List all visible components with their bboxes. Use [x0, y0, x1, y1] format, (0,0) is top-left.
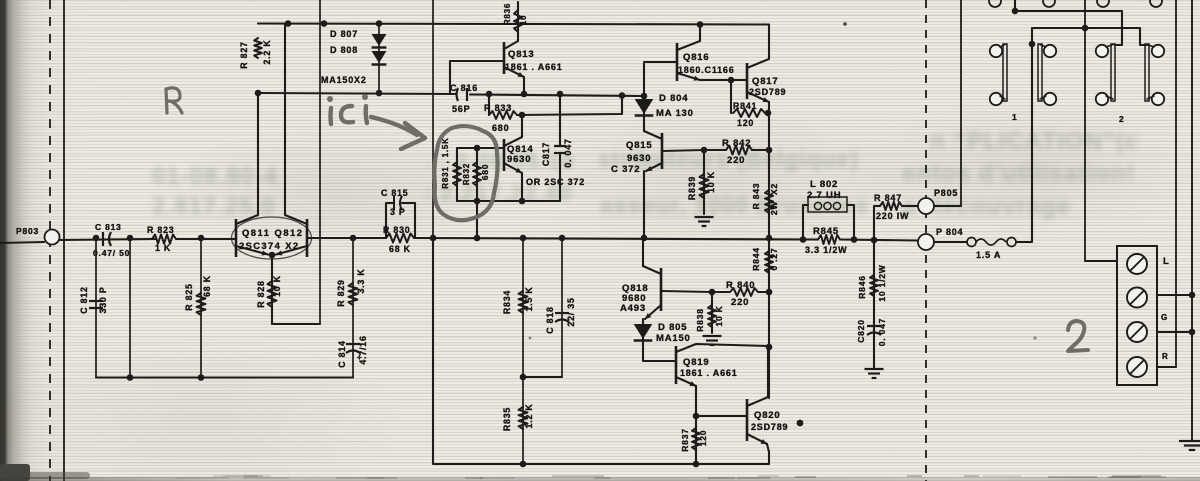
svg-text:4.7/16: 4.7/16 [358, 335, 368, 364]
svg-text:3 P: 3 P [390, 207, 406, 217]
svg-text:220: 220 [731, 297, 749, 308]
svg-text:1.2 K: 1.2 K [524, 403, 534, 428]
svg-text:1861 . A661: 1861 . A661 [505, 62, 563, 72]
svg-text:D 804: D 804 [659, 93, 688, 104]
svg-text:R 833: R 833 [484, 103, 512, 113]
svg-text:22/ 35: 22/ 35 [566, 297, 576, 326]
svg-text:R846: R846 [857, 275, 867, 299]
svg-text:Q815: Q815 [626, 140, 652, 151]
svg-text:9630: 9630 [627, 153, 651, 164]
svg-text:Q813: Q813 [508, 49, 534, 60]
svg-text:C 372: C 372 [611, 164, 640, 175]
svg-text:680: 680 [492, 123, 509, 133]
svg-text:L 802: L 802 [810, 179, 838, 190]
svg-text:2: 2 [1119, 114, 1125, 124]
svg-text:OR 2SC 372: OR 2SC 372 [526, 177, 585, 187]
svg-text:3.3 1/2W: 3.3 1/2W [805, 245, 847, 255]
svg-text:D 808: D 808 [330, 45, 358, 55]
svg-text:R 823: R 823 [147, 225, 174, 235]
svg-text:R 825: R 825 [184, 283, 194, 310]
svg-text:MA150: MA150 [656, 333, 691, 344]
svg-text:0.47/ 50: 0.47/ 50 [93, 248, 130, 258]
svg-text:R836: R836 [503, 3, 512, 25]
svg-text:2.2 K: 2.2 K [262, 39, 272, 64]
svg-text:MA150X2: MA150X2 [321, 75, 367, 85]
svg-text:3.3 K: 3.3 K [356, 268, 366, 293]
svg-text:Q819: Q819 [683, 357, 709, 368]
svg-text:0. 047: 0. 047 [563, 138, 573, 167]
svg-text:2SD789: 2SD789 [749, 87, 786, 97]
svg-text:1.5 A: 1.5 A [976, 250, 1001, 260]
svg-text:R 847: R 847 [874, 193, 902, 203]
svg-text:R841: R841 [733, 101, 757, 111]
svg-text:10 K: 10 K [272, 275, 282, 297]
svg-text:10 K: 10 K [714, 305, 724, 326]
svg-text:R838: R838 [695, 308, 705, 332]
svg-text:R 840: R 840 [726, 280, 755, 291]
svg-text:R: R [1162, 352, 1169, 361]
svg-text:330 P: 330 P [98, 287, 108, 314]
svg-text:R831 , 1.5K: R831 , 1.5K [441, 137, 450, 189]
svg-text:G: G [1161, 313, 1168, 322]
svg-text:2SC374 X2: 2SC374 X2 [239, 240, 300, 251]
svg-text:P805: P805 [934, 188, 958, 198]
svg-text:R839: R839 [687, 176, 697, 200]
svg-text:X2: X2 [769, 183, 779, 195]
svg-text:C 815: C 815 [381, 188, 408, 198]
svg-text:R 843: R 843 [751, 183, 761, 210]
svg-text:1.5 K: 1.5 K [524, 286, 534, 311]
svg-text:R 842: R 842 [722, 138, 751, 149]
svg-text:R 827: R 827 [239, 41, 249, 68]
svg-text:D 807: D 807 [330, 29, 358, 39]
svg-text:MA 130: MA 130 [656, 108, 694, 119]
svg-text:A493: A493 [620, 303, 646, 314]
svg-text:220: 220 [727, 155, 745, 166]
svg-text:R 828: R 828 [256, 280, 266, 307]
svg-text:Q817: Q817 [752, 76, 778, 87]
svg-text:120: 120 [698, 430, 708, 447]
svg-text:P 804: P 804 [936, 227, 963, 237]
svg-text:C 816: C 816 [450, 83, 478, 93]
svg-text:D 805: D 805 [658, 322, 687, 333]
svg-text:1860.C1166: 1860.C1166 [678, 65, 735, 75]
svg-text:9630: 9630 [507, 154, 531, 165]
svg-text:10 1/2W: 10 1/2W [877, 264, 887, 301]
svg-text:Q816: Q816 [683, 52, 709, 63]
svg-text:C817: C817 [541, 142, 551, 166]
svg-text:C 813: C 813 [95, 222, 122, 232]
svg-text:220 IW: 220 IW [876, 211, 909, 221]
svg-text:R844: R844 [751, 247, 761, 271]
svg-text:R837: R837 [680, 428, 690, 452]
svg-text:1 K: 1 K [155, 243, 171, 253]
svg-text:C 818: C 818 [545, 306, 555, 333]
svg-text:R 829: R 829 [336, 279, 346, 306]
svg-text:P803: P803 [16, 226, 39, 236]
svg-text:C820: C820 [856, 319, 866, 343]
svg-text:10: 10 [519, 15, 528, 26]
svg-text:1861 . A661: 1861 . A661 [680, 368, 738, 378]
svg-text:R832: R832 [462, 163, 471, 185]
svg-text:2.7 UH: 2.7 UH [807, 190, 841, 201]
svg-text:1: 1 [1012, 112, 1018, 122]
svg-text:R845: R845 [813, 226, 839, 237]
svg-text:L: L [1163, 256, 1170, 267]
svg-text:10 K: 10 K [706, 171, 716, 193]
svg-text:68 K: 68 K [389, 244, 411, 254]
svg-text:2W: 2W [769, 201, 779, 216]
svg-text:Q820: Q820 [754, 410, 780, 421]
svg-text:68 K: 68 K [202, 275, 212, 297]
svg-text:56P: 56P [452, 104, 470, 114]
svg-text:C 812: C 812 [79, 286, 89, 313]
svg-text:R835: R835 [502, 407, 512, 431]
svg-text:120: 120 [737, 118, 754, 128]
svg-text:680: 680 [480, 164, 490, 181]
svg-text:2SD789: 2SD789 [751, 422, 788, 432]
svg-text:C 814: C 814 [337, 340, 347, 367]
svg-text:Q811 Q812: Q811 Q812 [242, 227, 303, 238]
svg-text:0 .27: 0 .27 [769, 248, 779, 271]
svg-text:R 830: R 830 [383, 225, 410, 235]
svg-text:R834: R834 [502, 290, 512, 314]
svg-text:0. 047: 0. 047 [877, 318, 887, 346]
